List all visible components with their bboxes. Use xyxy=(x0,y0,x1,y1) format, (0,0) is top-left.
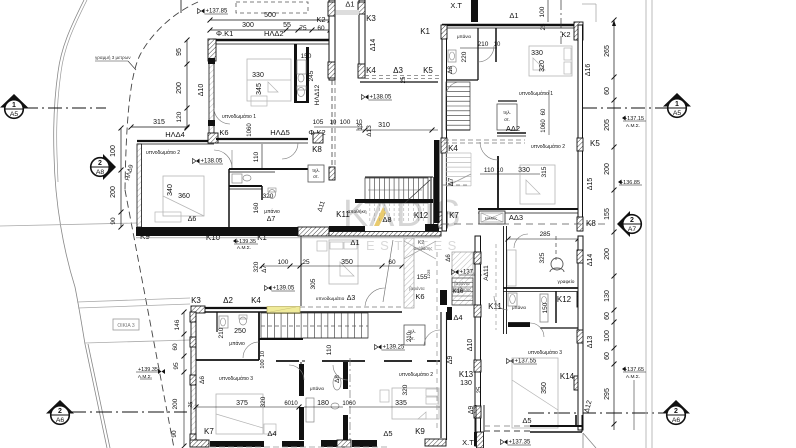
bottom wall right apt xyxy=(484,425,530,427)
dim 285 office xyxy=(508,238,578,240)
svg-text:25: 25 xyxy=(188,401,195,408)
svg-text:320: 320 xyxy=(260,396,267,407)
svg-text:146: 146 xyxy=(174,319,181,330)
dashed row under stair xyxy=(442,184,470,186)
svg-text:295: 295 xyxy=(604,388,611,400)
bathroom ILD12 walls xyxy=(294,44,297,102)
stair flight above grey xyxy=(336,10,359,15)
svg-text:K3: K3 xyxy=(191,296,201,305)
vwall black 1 xyxy=(300,362,302,388)
door arc 2 xyxy=(446,82,460,96)
column left low xyxy=(208,120,215,126)
svg-text:200: 200 xyxy=(176,82,183,94)
wall left upper x212 xyxy=(209,60,214,140)
dashed balcony top xyxy=(236,2,308,13)
svg-text:55: 55 xyxy=(283,22,291,29)
svg-text:τηλ.: τηλ. xyxy=(503,110,511,115)
svg-text:+137.55: +137.55 xyxy=(515,359,538,365)
svg-text:υπνοδωμάτιο 3: υπνοδωμάτιο 3 xyxy=(528,349,562,356)
mega wall black left xyxy=(136,227,298,236)
frame corner top xyxy=(582,3,596,5)
section line 1-1 right xyxy=(583,107,667,109)
chimney XT top xyxy=(471,0,478,22)
svg-text:Δ2: Δ2 xyxy=(223,296,233,305)
svg-text:Δ1: Δ1 xyxy=(350,238,359,247)
section marker 2/A6 bottom right xyxy=(662,400,690,424)
svg-text:K12: K12 xyxy=(557,295,572,304)
section marker 1/A5 left xyxy=(0,94,28,118)
svg-text:300: 300 xyxy=(242,22,254,29)
svg-text:10: 10 xyxy=(330,120,337,126)
level flag +138.05 bed2 xyxy=(196,159,200,164)
section marker 2/A8 left xyxy=(91,154,116,180)
svg-text:210: 210 xyxy=(218,327,225,338)
svg-text:265: 265 xyxy=(604,45,611,57)
svg-text:Δ1: Δ1 xyxy=(509,11,518,20)
svg-text:Δ10: Δ10 xyxy=(198,84,205,97)
door arc 11 xyxy=(214,108,230,124)
svg-text:ΑΔ3: ΑΔ3 xyxy=(509,213,523,222)
stair core dashed wall xyxy=(331,80,333,167)
svg-text:100: 100 xyxy=(110,145,117,157)
balcony dashed vertical xyxy=(436,252,438,428)
svg-text:Δ3: Δ3 xyxy=(393,66,403,75)
section line 1-1 left xyxy=(24,107,106,109)
lower stair rail xyxy=(259,338,303,340)
svg-text:μπάνιο: μπάνιο xyxy=(229,340,245,347)
XT bottom block xyxy=(477,432,484,448)
flag +139.25 xyxy=(378,345,382,350)
column K6 left xyxy=(208,133,218,143)
wall AD2 xyxy=(497,132,526,134)
svg-text:ξύλινες: ξύλινες xyxy=(485,217,497,221)
svg-text:210: 210 xyxy=(478,41,489,48)
svg-text:105: 105 xyxy=(313,119,324,126)
svg-text:10: 10 xyxy=(494,42,501,48)
neighbour line 1 xyxy=(77,298,190,302)
wall bath low bottom xyxy=(508,322,530,324)
svg-text:A5: A5 xyxy=(673,110,682,117)
svg-text:K6: K6 xyxy=(219,128,228,137)
level flag +137.85 xyxy=(201,9,205,14)
top tick line xyxy=(180,0,182,13)
svg-text:210: 210 xyxy=(407,331,413,342)
svg-text:100: 100 xyxy=(278,259,289,266)
svg-text:ΗΛΔ12: ΗΛΔ12 xyxy=(314,84,321,105)
lower apt top wall xyxy=(191,307,300,309)
svg-text:Α.Μ.Σ.: Α.Μ.Σ. xyxy=(626,374,640,380)
mega wall hatch seg xyxy=(298,227,329,236)
svg-text:K7: K7 xyxy=(204,427,214,436)
svg-text:100: 100 xyxy=(604,330,611,342)
dims left lower xyxy=(183,312,185,446)
svg-text:βεράντα: βεράντα xyxy=(454,281,470,286)
flag +137.50 xyxy=(455,270,459,275)
wall left lower x137 xyxy=(137,144,142,227)
stair right wall thin xyxy=(430,177,432,225)
section line 2-2 bottom right xyxy=(528,412,666,414)
dims 375 320 xyxy=(196,406,299,408)
svg-text:Δ10: Δ10 xyxy=(467,339,474,352)
svg-text:γραφείο: γραφείο xyxy=(558,279,575,285)
stair top line xyxy=(365,176,433,178)
svg-text:Δ8: Δ8 xyxy=(382,215,391,224)
svg-text:325: 325 xyxy=(539,252,546,263)
OIKIA 3 box xyxy=(113,319,139,330)
svg-text:K8: K8 xyxy=(312,145,322,154)
bath D7 wall mid xyxy=(229,185,262,187)
dim 500 top xyxy=(210,19,330,21)
svg-text:75: 75 xyxy=(299,25,307,32)
svg-text:Δ4: Δ4 xyxy=(267,429,276,438)
main stairs upper dashes xyxy=(369,203,371,222)
svg-text:ΗΛΔ5: ΗΛΔ5 xyxy=(270,128,290,137)
level flag +138.05 corr xyxy=(365,95,369,100)
svg-text:K9: K9 xyxy=(415,427,425,436)
svg-text:110: 110 xyxy=(253,151,260,162)
corridor dashed AD2 xyxy=(444,139,525,141)
svg-text:180: 180 xyxy=(317,400,329,407)
internal stair mid wall xyxy=(446,129,470,131)
svg-text:υπνοδωμάτιο 2: υπνοδωμάτιο 2 xyxy=(531,143,565,150)
svg-text:K2: K2 xyxy=(561,30,570,39)
svg-text:K4: K4 xyxy=(366,66,376,75)
svg-text:K2: K2 xyxy=(316,15,325,24)
svg-text:100: 100 xyxy=(260,359,266,368)
neighbour line 3 xyxy=(85,340,190,343)
svg-text:320: 320 xyxy=(402,384,409,395)
main stairs rail xyxy=(355,199,433,203)
wall top bedroom1 xyxy=(212,39,330,41)
neighbour line 0 xyxy=(0,223,137,226)
svg-text:ΗΛΔ2: ΗΛΔ2 xyxy=(264,29,284,38)
mega wall black right xyxy=(425,224,439,231)
right wall lower apt xyxy=(578,236,583,430)
svg-text:10: 10 xyxy=(497,168,504,174)
bed1 right apt xyxy=(529,46,572,76)
svg-text:ΟΙΚΙΑ 3: ΟΙΚΙΑ 3 xyxy=(117,323,134,329)
wall D1 room left xyxy=(300,236,302,306)
svg-text:υπνοδωμάτιο 2: υπνοδωμάτιο 2 xyxy=(399,371,433,378)
wall y361 segs xyxy=(322,360,365,362)
svg-text:τηλ.: τηλ. xyxy=(312,168,320,173)
bedroom1 interior bed xyxy=(247,59,291,101)
svg-text:Δ7: Δ7 xyxy=(262,265,268,273)
svg-text:υπνοδωμάτιο 1: υπνοδωμάτιο 1 xyxy=(519,90,553,97)
svg-text:K4: K4 xyxy=(448,144,458,153)
svg-text:1060: 1060 xyxy=(342,401,356,407)
entrance stair hatch xyxy=(452,252,473,305)
svg-text:A8: A8 xyxy=(96,169,105,176)
svg-text:1060: 1060 xyxy=(247,123,253,137)
dashed boundary lower xyxy=(125,190,174,448)
svg-text:305: 305 xyxy=(310,278,317,289)
closet tilst xyxy=(308,165,324,182)
svg-text:+137.35: +137.35 xyxy=(509,440,532,446)
svg-text:250: 250 xyxy=(234,328,246,335)
svg-text:2: 2 xyxy=(674,408,678,415)
svg-text:150: 150 xyxy=(301,53,312,60)
vwall black 2 xyxy=(344,362,346,386)
svg-text:K13: K13 xyxy=(459,370,474,379)
lower apt left wall xyxy=(191,312,196,446)
column FK2 xyxy=(313,133,323,143)
svg-text:ΑΔ2: ΑΔ2 xyxy=(506,124,520,133)
svg-text:A6: A6 xyxy=(56,417,65,424)
svg-text:245: 245 xyxy=(308,70,315,81)
svg-text:γραμμή 3 μετρων: γραμμή 3 μετρων xyxy=(95,54,131,60)
main stairs arrow xyxy=(368,189,422,191)
box wood xyxy=(479,211,505,224)
svg-text:K5: K5 xyxy=(423,66,433,75)
bed room D1 xyxy=(329,240,358,284)
section marker 2/A6 bottom left xyxy=(46,400,74,424)
svg-text:330: 330 xyxy=(252,72,264,79)
svg-text:1225: 1225 xyxy=(426,269,431,279)
svg-text:K8: K8 xyxy=(586,219,596,228)
dim 295 line xyxy=(633,380,635,430)
svg-text:Δ6: Δ6 xyxy=(188,216,197,223)
lower stairs dash xyxy=(261,325,368,327)
balcony dash bottom xyxy=(210,446,390,448)
vwall office left xyxy=(503,226,505,334)
svg-text:335: 335 xyxy=(395,400,407,407)
svg-text:υπνοδωμάτιο 1: υπνοδωμάτιο 1 xyxy=(222,113,256,120)
column K7 hatched xyxy=(438,212,447,228)
stair core left wall xyxy=(329,0,335,80)
dim 315 xyxy=(131,126,187,128)
svg-text:375: 375 xyxy=(236,400,248,407)
svg-text:Δ7: Δ7 xyxy=(448,178,455,187)
svg-text:Δ14: Δ14 xyxy=(587,254,594,267)
svg-text:60: 60 xyxy=(541,108,547,115)
closet til low xyxy=(404,325,425,345)
dim 210 10 top xyxy=(460,47,497,49)
svg-text:95: 95 xyxy=(176,48,183,56)
svg-text:360: 360 xyxy=(178,193,190,200)
section marker 2/A7 right xyxy=(617,211,641,237)
top wall right apt xyxy=(442,24,582,26)
svg-text:ΗΛΔ4: ΗΛΔ4 xyxy=(165,130,185,139)
svg-text:+139.05: +139.05 xyxy=(273,286,296,292)
right apt left col K4 xyxy=(441,138,447,153)
svg-text:315: 315 xyxy=(153,119,165,126)
svg-text:1: 1 xyxy=(12,102,16,109)
wall below corridor xyxy=(360,81,438,83)
svg-text:2: 2 xyxy=(630,217,634,224)
svg-text:μπάνιο: μπάνιο xyxy=(310,385,324,391)
svg-text:200: 200 xyxy=(604,163,611,175)
wall right of bed2 xyxy=(440,312,442,438)
svg-text:ΑΔ11: ΑΔ11 xyxy=(483,265,490,281)
svg-text:25: 25 xyxy=(541,23,547,30)
centerline bath door xyxy=(349,358,351,445)
bath D7 fixtures xyxy=(269,190,276,199)
mega wall black stair xyxy=(329,226,365,232)
corridor dashed wall top xyxy=(365,75,441,77)
svg-text:Δ4: Δ4 xyxy=(453,313,462,322)
svg-text:Δ15: Δ15 xyxy=(587,178,594,191)
property dashed curve xyxy=(125,2,198,190)
svg-text:60: 60 xyxy=(317,25,325,32)
svg-text:Δ1: Δ1 xyxy=(345,0,354,9)
door arc 6 xyxy=(289,365,304,380)
road edge / plot boundary line xyxy=(54,0,107,448)
right apt left col1 xyxy=(441,25,447,39)
svg-text:Δ7: Δ7 xyxy=(267,216,276,223)
svg-text:60: 60 xyxy=(604,312,611,320)
right dimension chain xyxy=(613,20,615,430)
svg-text:150: 150 xyxy=(542,302,549,313)
stair core left col mid xyxy=(328,62,335,78)
stair core left col top xyxy=(328,2,335,16)
door arc 5 xyxy=(243,342,259,358)
svg-text:340: 340 xyxy=(167,184,174,196)
svg-text:100: 100 xyxy=(539,6,546,17)
svg-text:1060: 1060 xyxy=(541,119,547,133)
closet tilst right xyxy=(497,104,517,130)
svg-text:στ.: στ. xyxy=(504,117,510,122)
svg-text:1: 1 xyxy=(675,101,679,108)
svg-text:Δ9: Δ9 xyxy=(447,356,454,365)
dim chain left lower xyxy=(120,128,122,227)
svg-text:K4: K4 xyxy=(251,296,261,305)
svg-text:υπνοδωμάτιο 3: υπνοδωμάτιο 3 xyxy=(219,375,253,382)
dim chain left upper xyxy=(186,40,188,128)
svg-text:60: 60 xyxy=(388,259,396,266)
svg-text:Δ6: Δ6 xyxy=(199,376,206,384)
svg-text:A5: A5 xyxy=(10,111,19,118)
svg-text:+138.05: +138.05 xyxy=(201,159,224,165)
svg-text:βεράντα: βεράντα xyxy=(409,286,425,291)
svg-text:320: 320 xyxy=(253,261,260,272)
section marker 1/A5 right xyxy=(663,93,691,117)
bedroom2 bed xyxy=(163,176,204,216)
svg-text:Δ9: Δ9 xyxy=(468,406,475,415)
bed2 right apt xyxy=(520,165,555,204)
door arc 7 xyxy=(333,365,348,380)
svg-text:2: 2 xyxy=(98,160,102,167)
vwall bed2 right xyxy=(497,156,499,208)
svg-text:μπάνιο: μπάνιο xyxy=(264,208,280,215)
svg-text:200: 200 xyxy=(110,186,117,198)
svg-text:+139.25: +139.25 xyxy=(383,345,406,351)
stair core col K xyxy=(329,167,335,180)
stair core right wall xyxy=(359,0,365,78)
flag +137.55 xyxy=(510,359,514,364)
office desk xyxy=(507,250,516,286)
neighbour line 2 xyxy=(78,304,190,308)
svg-text:Δ3: Δ3 xyxy=(347,295,356,302)
svg-text:90: 90 xyxy=(110,217,117,225)
svg-text:95: 95 xyxy=(173,362,180,370)
dim 300/55/75/60 xyxy=(210,29,330,31)
office chair xyxy=(551,258,563,270)
svg-text:Δ5: Δ5 xyxy=(383,429,392,438)
svg-text:υπνοδωμάτιο 2: υπνοδωμάτιο 2 xyxy=(146,149,180,156)
right apt right colK8 xyxy=(577,217,583,231)
svg-text:345: 345 xyxy=(256,83,263,95)
svg-text:+137.85: +137.85 xyxy=(206,9,229,15)
svg-text:100: 100 xyxy=(340,119,351,126)
svg-text:A7: A7 xyxy=(628,226,637,233)
column K12 low hatch xyxy=(577,292,583,307)
door arc bed2 xyxy=(214,150,232,168)
svg-text:320: 320 xyxy=(539,60,546,72)
svg-text:Δ16: Δ16 xyxy=(585,64,592,77)
svg-text:25: 25 xyxy=(477,386,483,393)
svg-text:Δ14: Δ14 xyxy=(370,39,377,52)
svg-text:330: 330 xyxy=(531,50,543,57)
svg-text:120: 120 xyxy=(176,111,183,122)
svg-text:K14: K14 xyxy=(560,372,575,381)
entrance stair treads xyxy=(452,278,473,305)
svg-text:285: 285 xyxy=(540,231,551,238)
svg-text:2: 2 xyxy=(58,408,62,415)
right apt right wall xyxy=(578,25,583,231)
door yellow strip xyxy=(267,307,300,314)
section line 2-2 bottom left xyxy=(70,411,187,413)
wall x475 vertical xyxy=(475,236,481,446)
bed2 low xyxy=(392,388,439,419)
svg-text:315: 315 xyxy=(541,166,548,177)
door arc 10 xyxy=(530,323,544,337)
svg-text:60: 60 xyxy=(604,352,611,360)
black wall left of bedroom2 xyxy=(434,140,440,223)
svg-text:25: 25 xyxy=(302,259,310,266)
wall office bottom xyxy=(503,287,578,289)
svg-text:60: 60 xyxy=(172,343,179,351)
svg-text:Δ5: Δ5 xyxy=(522,416,531,425)
section 2-2 dashes A7 xyxy=(442,223,610,225)
bath D7 vwall xyxy=(228,169,230,227)
wall ILD5 xyxy=(216,138,308,140)
svg-text:Χ.Τ: Χ.Τ xyxy=(450,1,462,10)
dims row y263 xyxy=(262,265,402,267)
bath low walls xyxy=(195,312,197,360)
column K2 right xyxy=(574,22,583,40)
vwall k12 xyxy=(555,291,557,323)
svg-text:+138.05: +138.05 xyxy=(370,95,393,101)
frame corner bottom right xyxy=(582,433,584,448)
svg-text:K6: K6 xyxy=(415,292,424,301)
svg-text:310: 310 xyxy=(378,122,390,129)
door arc grafeio xyxy=(514,234,528,248)
svg-text:Α.Μ.Σ.: Α.Μ.Σ. xyxy=(237,245,251,251)
svg-text:K9: K9 xyxy=(140,232,150,241)
col K3 low xyxy=(191,306,205,313)
wall ILD4 xyxy=(137,140,214,142)
svg-text:Α.Μ.Σ.: Α.Μ.Σ. xyxy=(626,123,640,129)
wall corridor low xyxy=(276,360,299,362)
hatch strip veranda xyxy=(404,238,414,308)
bottom wall segs xyxy=(190,440,209,447)
svg-text:υπνοδωμάτιο: υπνοδωμάτιο xyxy=(316,295,345,302)
svg-text:K11: K11 xyxy=(488,302,502,311)
svg-text:Χ.Τ: Χ.Τ xyxy=(462,438,474,447)
mega wall hatch lower xyxy=(329,232,441,237)
svg-text:Δ6: Δ6 xyxy=(446,254,452,262)
dims 6010 180 1060 xyxy=(304,406,343,408)
internal stair lower flight xyxy=(446,152,471,154)
svg-text:155: 155 xyxy=(604,208,611,220)
column F.K1 xyxy=(208,39,216,61)
svg-text:205: 205 xyxy=(604,119,611,131)
svg-text:μπάνιο: μπάνιο xyxy=(512,304,526,310)
frame line right a xyxy=(645,0,647,448)
svg-text:350: 350 xyxy=(541,382,548,394)
col K14 hatch xyxy=(574,376,580,390)
